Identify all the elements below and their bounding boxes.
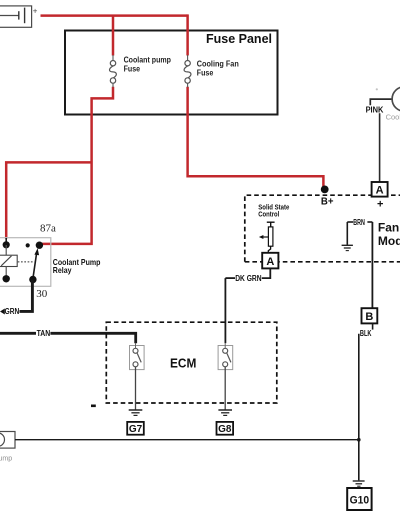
wire GRN from relay pin 30 — [20, 280, 33, 312]
svg-text:G10: G10 — [350, 494, 370, 506]
fan control module dashed box — [245, 195, 400, 262]
svg-text:Fan Control: Fan Control — [378, 220, 400, 234]
svg-text:87a: 87a — [40, 223, 56, 235]
svg-text:B+: B+ — [321, 196, 334, 207]
node relay pin 30 — [29, 276, 36, 283]
relay K1 box — [0, 238, 51, 287]
svg-text:Cooling Fan: Cooling Fan — [197, 60, 239, 69]
fuse panel box — [65, 31, 278, 115]
svg-text:Coolant pump: Coolant pump — [124, 56, 171, 65]
svg-text:ECM: ECM — [170, 355, 196, 370]
svg-text:A: A — [376, 185, 384, 197]
wire coolant pump to G10 — [15, 439, 359, 441]
wire red coolant pump fuse output to relay 87a — [41, 87, 113, 244]
wire red branch to coolant pump fuse — [112, 16, 115, 56]
wire DK GRN drop into ECM — [224, 278, 226, 343]
ground G10 box — [347, 488, 371, 510]
node relay aux contact — [26, 243, 30, 247]
ground G10 symbol — [353, 481, 365, 486]
wire coil bottom lead — [5, 267, 7, 279]
node BLK junction — [357, 438, 361, 442]
wire coil top lead — [5, 245, 7, 255]
wire red cooling fan fuse output to B+ — [188, 87, 324, 187]
svg-text:G7: G7 — [129, 424, 143, 435]
battery internal wire — [0, 15, 19, 17]
svg-text:Fuse: Fuse — [197, 68, 214, 77]
svg-text:BLK: BLK — [360, 329, 372, 338]
wire BLK to G10 — [358, 334, 360, 481]
svg-text:Fuse: Fuse — [124, 64, 141, 73]
coolant pump motor box — [0, 432, 15, 449]
relay switch arm — [33, 253, 37, 280]
ECM dashed box — [106, 322, 276, 403]
battery short plate — [18, 11, 20, 19]
terminal A fan module plus — [372, 182, 388, 197]
ground BRN symbol — [342, 245, 353, 250]
svg-text:Control: Control — [258, 209, 279, 218]
wire PINK to terminal A — [379, 113, 381, 182]
svg-text:DK GRN: DK GRN — [235, 274, 262, 283]
svg-text:GRN: GRN — [5, 307, 20, 316]
battery B1 box — [0, 6, 32, 27]
svg-text:+: + — [377, 199, 383, 211]
svg-text:G8: G8 — [218, 424, 232, 435]
svg-text:+: + — [33, 7, 38, 16]
wire fan module internal to terminal B — [371, 222, 373, 308]
cooling fan motor M1 — [392, 87, 400, 112]
node coil top junction — [3, 241, 10, 248]
wire switch2 to ground — [224, 367, 226, 410]
ECM driver switch 2 — [218, 343, 233, 370]
relay coil — [0, 255, 17, 266]
ground G8 symbol — [218, 410, 232, 415]
GRN arrowhead — [0, 309, 5, 315]
coolant pump motor circle — [0, 433, 5, 447]
wire DK GRN from terminal A — [262, 269, 271, 279]
fuse F1 coolant pump fuse — [109, 55, 116, 87]
terminal B fan module — [362, 308, 378, 323]
wire red branch to relay coil — [6, 162, 91, 238]
svg-text:ump: ump — [0, 455, 12, 462]
node coil bottom terminal — [2, 275, 9, 282]
svg-text:Cooling Fan: Cooling Fan — [386, 113, 400, 122]
node B+ junction — [321, 186, 329, 194]
node relay 87a contact — [36, 242, 43, 249]
wire DK GRN left segment — [225, 277, 235, 279]
relay dashed actuator link — [18, 261, 35, 263]
svg-text:Module: Module — [378, 234, 400, 248]
ground G7 symbol — [129, 410, 143, 415]
svg-text:PINK: PINK — [366, 105, 384, 114]
svg-text:30: 30 — [36, 288, 48, 300]
wire red drop to cooling fan fuse — [186, 14, 189, 55]
wire red B+ bus from battery — [41, 14, 188, 17]
svg-text:Fuse Panel: Fuse Panel — [206, 31, 272, 46]
svg-text:TAN: TAN — [37, 329, 51, 338]
battery long plate — [24, 8, 26, 24]
wire stub coil top — [5, 238, 7, 245]
wire PINK cooling fan motor lead — [370, 99, 392, 105]
ground G7 box — [127, 422, 144, 435]
wire BLK stub below terminal B — [372, 323, 374, 329]
svg-text:BRN: BRN — [353, 218, 365, 227]
fuse F2 cooling fan fuse — [184, 55, 191, 87]
terminal A solid state control — [262, 253, 278, 269]
svg-text:A: A — [266, 256, 274, 268]
ground G8 box — [217, 422, 234, 435]
minus mark near ECM — [91, 405, 96, 408]
wire TAN continuation into ECM — [50, 333, 135, 343]
svg-text:Relay: Relay — [53, 265, 72, 275]
solid state control symbol — [259, 222, 275, 253]
wire BRN ground branch — [347, 222, 372, 245]
ECM driver switch 1 — [130, 343, 145, 370]
speck — [376, 88, 378, 90]
svg-text:B: B — [365, 311, 373, 323]
wire TAN to ECM — [0, 332, 36, 335]
wire switch1 to ground — [135, 367, 137, 410]
